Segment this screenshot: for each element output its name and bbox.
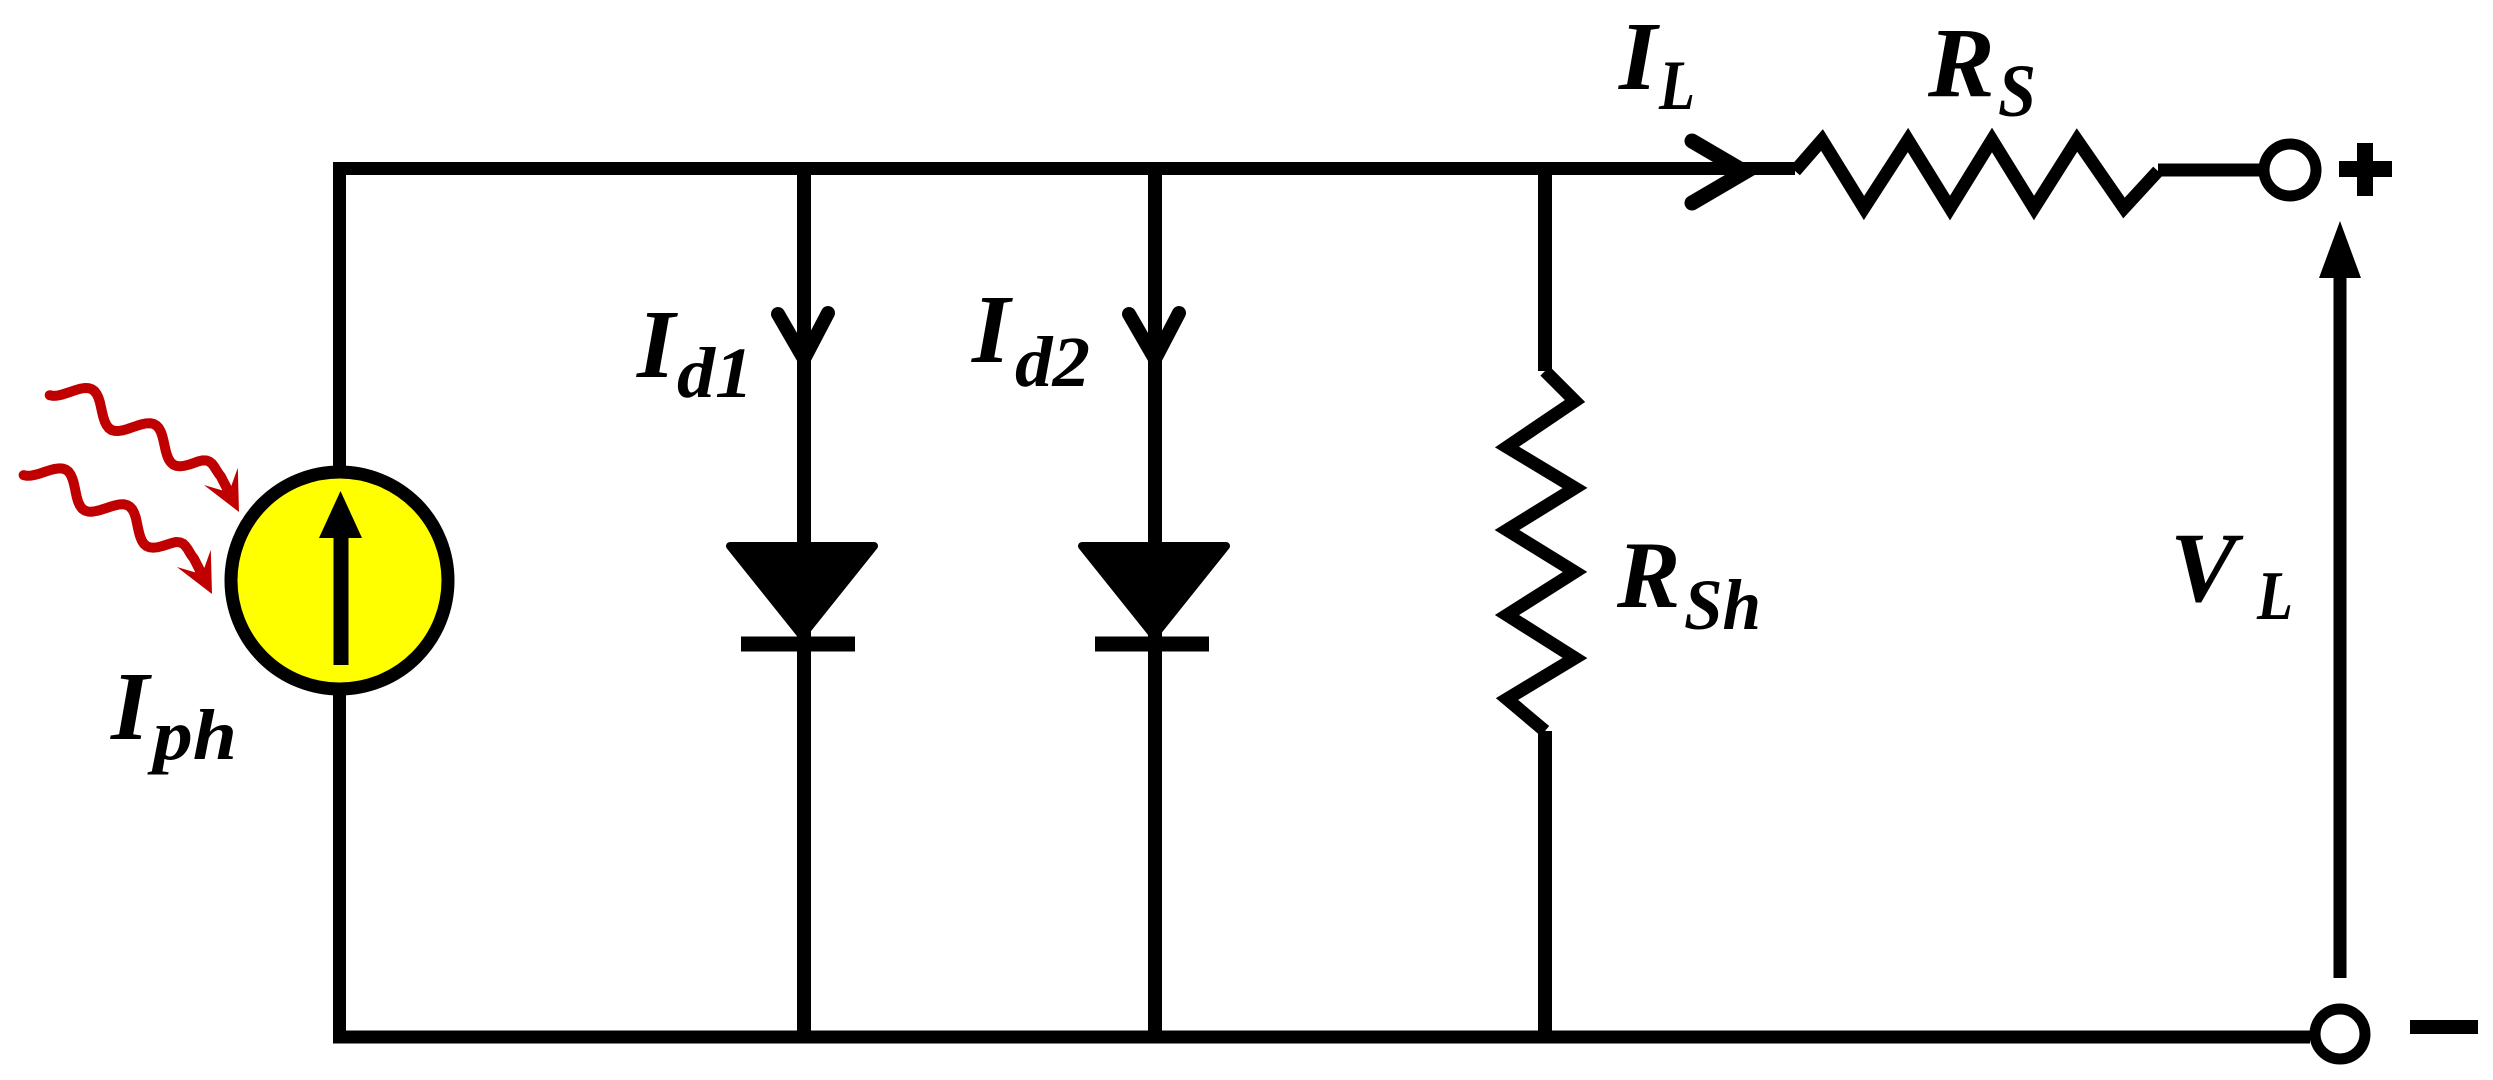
svg-text:I: I [1618, 3, 1660, 111]
svg-text:L: L [2256, 558, 2293, 635]
svg-text:I: I [971, 276, 1013, 384]
svg-text:R: R [1927, 7, 1995, 118]
svg-text:ph: ph [146, 695, 237, 775]
svg-text:I: I [110, 653, 152, 761]
svg-text:Sh: Sh [1684, 565, 1761, 645]
svg-text:V: V [2170, 512, 2244, 623]
svg-text:S: S [1998, 50, 2036, 133]
svg-text:I: I [636, 291, 678, 399]
svg-text:d2: d2 [1015, 322, 1090, 402]
svg-text:R: R [1616, 522, 1680, 628]
svg-text:L: L [1658, 47, 1695, 125]
svg-text:d1: d1 [677, 333, 753, 413]
